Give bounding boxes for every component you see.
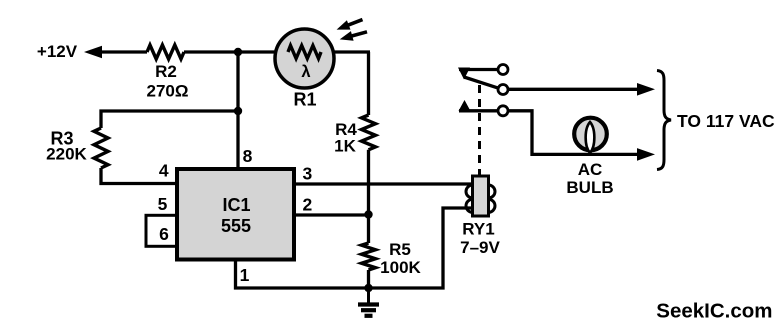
wire rail R2 to R1	[184, 50, 277, 53]
node junction pin8 column / R3 branch	[234, 107, 242, 115]
svg-text:+12V: +12V	[37, 42, 78, 61]
IC U1 555 body	[177, 169, 294, 260]
svg-text:5: 5	[158, 194, 168, 214]
wire lower contact line	[459, 109, 498, 112]
switch contact A	[498, 65, 508, 75]
wire branch to R3	[101, 111, 238, 128]
svg-text:6: 6	[159, 224, 169, 244]
resistor R2	[147, 45, 184, 59]
svg-text:1: 1	[240, 265, 250, 285]
svg-text:2: 2	[303, 195, 313, 215]
resistor R3	[94, 128, 108, 168]
svg-text:270Ω: 270Ω	[147, 82, 189, 101]
wire R4 bottom to pin2 junction	[367, 150, 370, 215]
wire rail R1 to corner	[333, 50, 370, 53]
brace to mains	[657, 71, 671, 170]
node junction pin2 / R4 / R5	[364, 210, 372, 218]
switch contact C	[498, 106, 508, 116]
switch moving arm	[464, 77, 499, 88]
wire vertical down to R4	[367, 52, 370, 115]
svg-text:SeekIC.com: SeekIC.com	[656, 300, 772, 323]
svg-text:R1: R1	[293, 90, 316, 110]
wire +12V rail left segment with arrow	[84, 46, 102, 58]
wire pin 3 to relay	[294, 182, 473, 185]
svg-text:3: 3	[303, 164, 313, 184]
svg-text:1K: 1K	[334, 137, 356, 156]
svg-text:8: 8	[243, 146, 253, 166]
switch pivot arm upper	[458, 68, 470, 80]
svg-text:TO 117 VAC: TO 117 VAC	[677, 111, 775, 131]
svg-text:R2: R2	[155, 62, 177, 81]
light arrows onto R1	[347, 20, 363, 26]
svg-text:IC1: IC1	[222, 195, 250, 215]
ground symbol	[367, 288, 370, 304]
svg-text:λ: λ	[301, 63, 310, 81]
wire R5 bottom to ground node	[367, 270, 370, 288]
resistor R4	[362, 115, 376, 150]
wire junction to R5	[367, 215, 370, 244]
lamp AC BULB	[574, 118, 607, 151]
svg-text:RY1: RY1	[462, 220, 494, 239]
svg-text:555: 555	[221, 216, 251, 236]
svg-text:BULB: BULB	[566, 178, 613, 197]
node junction ground	[364, 284, 372, 292]
wire pin 1 to ground rail and relay return	[236, 208, 473, 288]
pin 5-6 shorting box	[146, 215, 177, 246]
dashed mechanical link	[478, 85, 481, 176]
resistor R5	[362, 243, 376, 270]
switch contact B	[498, 85, 508, 95]
photoresistor R1	[275, 29, 334, 88]
svg-text:100K: 100K	[380, 258, 421, 277]
svg-text:7–9V: 7–9V	[460, 238, 500, 257]
svg-text:R5: R5	[389, 240, 411, 259]
wire pin8 column	[236, 52, 239, 169]
wire R3 bottom to pin 4	[101, 168, 177, 184]
wire pin 2 to R4/R5 junction	[294, 213, 369, 216]
svg-text:4: 4	[159, 161, 169, 181]
svg-text:AC: AC	[578, 160, 603, 179]
switch lower throw triangle	[459, 100, 471, 111]
relay RY1 coil	[466, 185, 479, 198]
wire contact B to line arrow	[509, 88, 641, 91]
node junction rail / pin8 column	[234, 48, 242, 56]
svg-text:220K: 220K	[46, 145, 87, 164]
wire contact C down to bulb line	[509, 111, 641, 155]
